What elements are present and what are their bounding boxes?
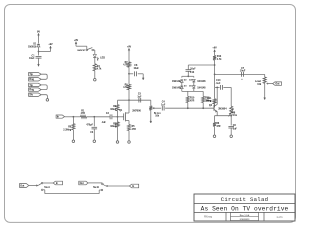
svg-text:1N914B: 1N914B [172,86,181,89]
svg-text:Rev 1.0.4: Rev 1.0.4 [240,214,250,217]
svg-text:Sw A: Sw A [44,186,50,189]
svg-text:Sw B: Sw B [93,187,99,189]
svg-text:R0: R0 [68,127,72,129]
svg-text:LED: LED [100,56,105,59]
svg-text:C5: C5 [138,94,142,96]
svg-text:1uF: 1uF [161,104,166,106]
svg-text:1Meg: 1Meg [110,109,117,111]
svg-text:.1uF: .1uF [101,122,106,124]
svg-text:1Meg: 1Meg [110,126,117,128]
svg-text:4.7k: 4.7k [123,64,128,67]
svg-text:1uF: 1uF [233,128,238,130]
svg-text:D5: D5 [189,86,192,88]
svg-text:Tip: Tip [29,74,33,76]
svg-text:47R: 47R [216,125,221,128]
svg-text:SWDPST: SWDPST [77,50,86,52]
svg-text:R8: R8 [232,113,236,115]
svg-text:R11: R11 [207,98,212,100]
svg-text:C2: C2 [106,113,110,115]
svg-text:1 of 1: 1 of 1 [276,216,283,219]
svg-text:+9V: +9V [48,43,53,46]
svg-text:2N7000: 2N7000 [132,109,141,112]
svg-text:Trim: Trim [232,115,237,117]
svg-text:10k: 10k [155,115,160,117]
svg-text:Q1: Q1 [119,110,123,112]
svg-text:RN.svg: RN.svg [204,216,213,219]
svg-text:1N914B: 1N914B [172,80,181,83]
svg-text:C8: C8 [134,65,138,67]
svg-text:D2: D2 [184,79,187,81]
svg-text:1N4148: 1N4148 [197,86,206,89]
svg-text:10k: 10k [257,84,262,86]
svg-text:Rng: Rng [29,79,34,81]
svg-text:10uF: 10uF [29,58,35,60]
svg-text:C1: C1 [32,55,36,57]
svg-text:4.7k: 4.7k [97,68,102,71]
svg-text:10uF: 10uF [190,69,196,71]
svg-text:R13: R13 [217,56,222,58]
svg-text:+9V: +9V [212,47,217,50]
svg-text:9V: 9V [37,30,40,33]
svg-text:Circuit Salad: Circuit Salad [221,196,269,203]
svg-text:1Meg: 1Meg [205,101,212,103]
svg-text:Out: Out [275,83,279,86]
svg-text:1N4148: 1N4148 [197,80,206,83]
svg-text:R1: R1 [81,111,85,113]
svg-text:47R: 47R [81,112,86,115]
svg-text:1uF: 1uF [137,96,142,98]
svg-text:2/10/2013: 2/10/2013 [240,219,251,221]
svg-text:R6: R6 [216,123,220,125]
svg-text:C6: C6 [233,125,237,127]
svg-text:Out: Out [80,182,84,185]
svg-text:D1: D1 [33,44,37,46]
svg-text:R4: R4 [97,65,101,68]
svg-text:D3: D3 [184,86,187,88]
svg-text:As Seen On TV overdrive: As Seen On TV overdrive [201,205,289,212]
svg-text:D4: D4 [189,78,192,81]
svg-text:+9V: +9V [74,39,79,42]
svg-text:.1uF: .1uF [216,83,221,85]
svg-text:4.7k: 4.7k [217,58,222,61]
svg-text:Tip: Tip [29,85,33,87]
svg-text:10uF: 10uF [240,70,246,73]
svg-text:+9V: +9V [127,45,132,48]
svg-text:C4: C4 [162,101,166,104]
svg-text:Level: Level [255,81,261,83]
svg-text:2N3904: 2N3904 [218,107,227,110]
svg-text:47R: 47R [132,128,137,131]
svg-text:R5: R5 [132,126,136,128]
svg-text:47R: 47R [190,99,195,102]
svg-text:Q2: Q2 [209,105,213,107]
svg-text:C13: C13 [190,72,195,74]
svg-text:Rng: Rng [29,90,34,92]
svg-text:+: + [241,78,243,81]
svg-text:1N5819: 1N5819 [28,46,37,48]
svg-text:4.7k: 4.7k [123,86,128,89]
svg-text:Out: Out [20,185,24,188]
svg-text:R10: R10 [190,98,195,100]
svg-text:470pF: 470pF [86,124,93,127]
svg-text:C3: C3 [90,132,94,134]
svg-text:10uF: 10uF [133,68,139,70]
svg-text:C10: C10 [216,80,221,82]
svg-text:2.2Meg: 2.2Meg [63,129,71,131]
